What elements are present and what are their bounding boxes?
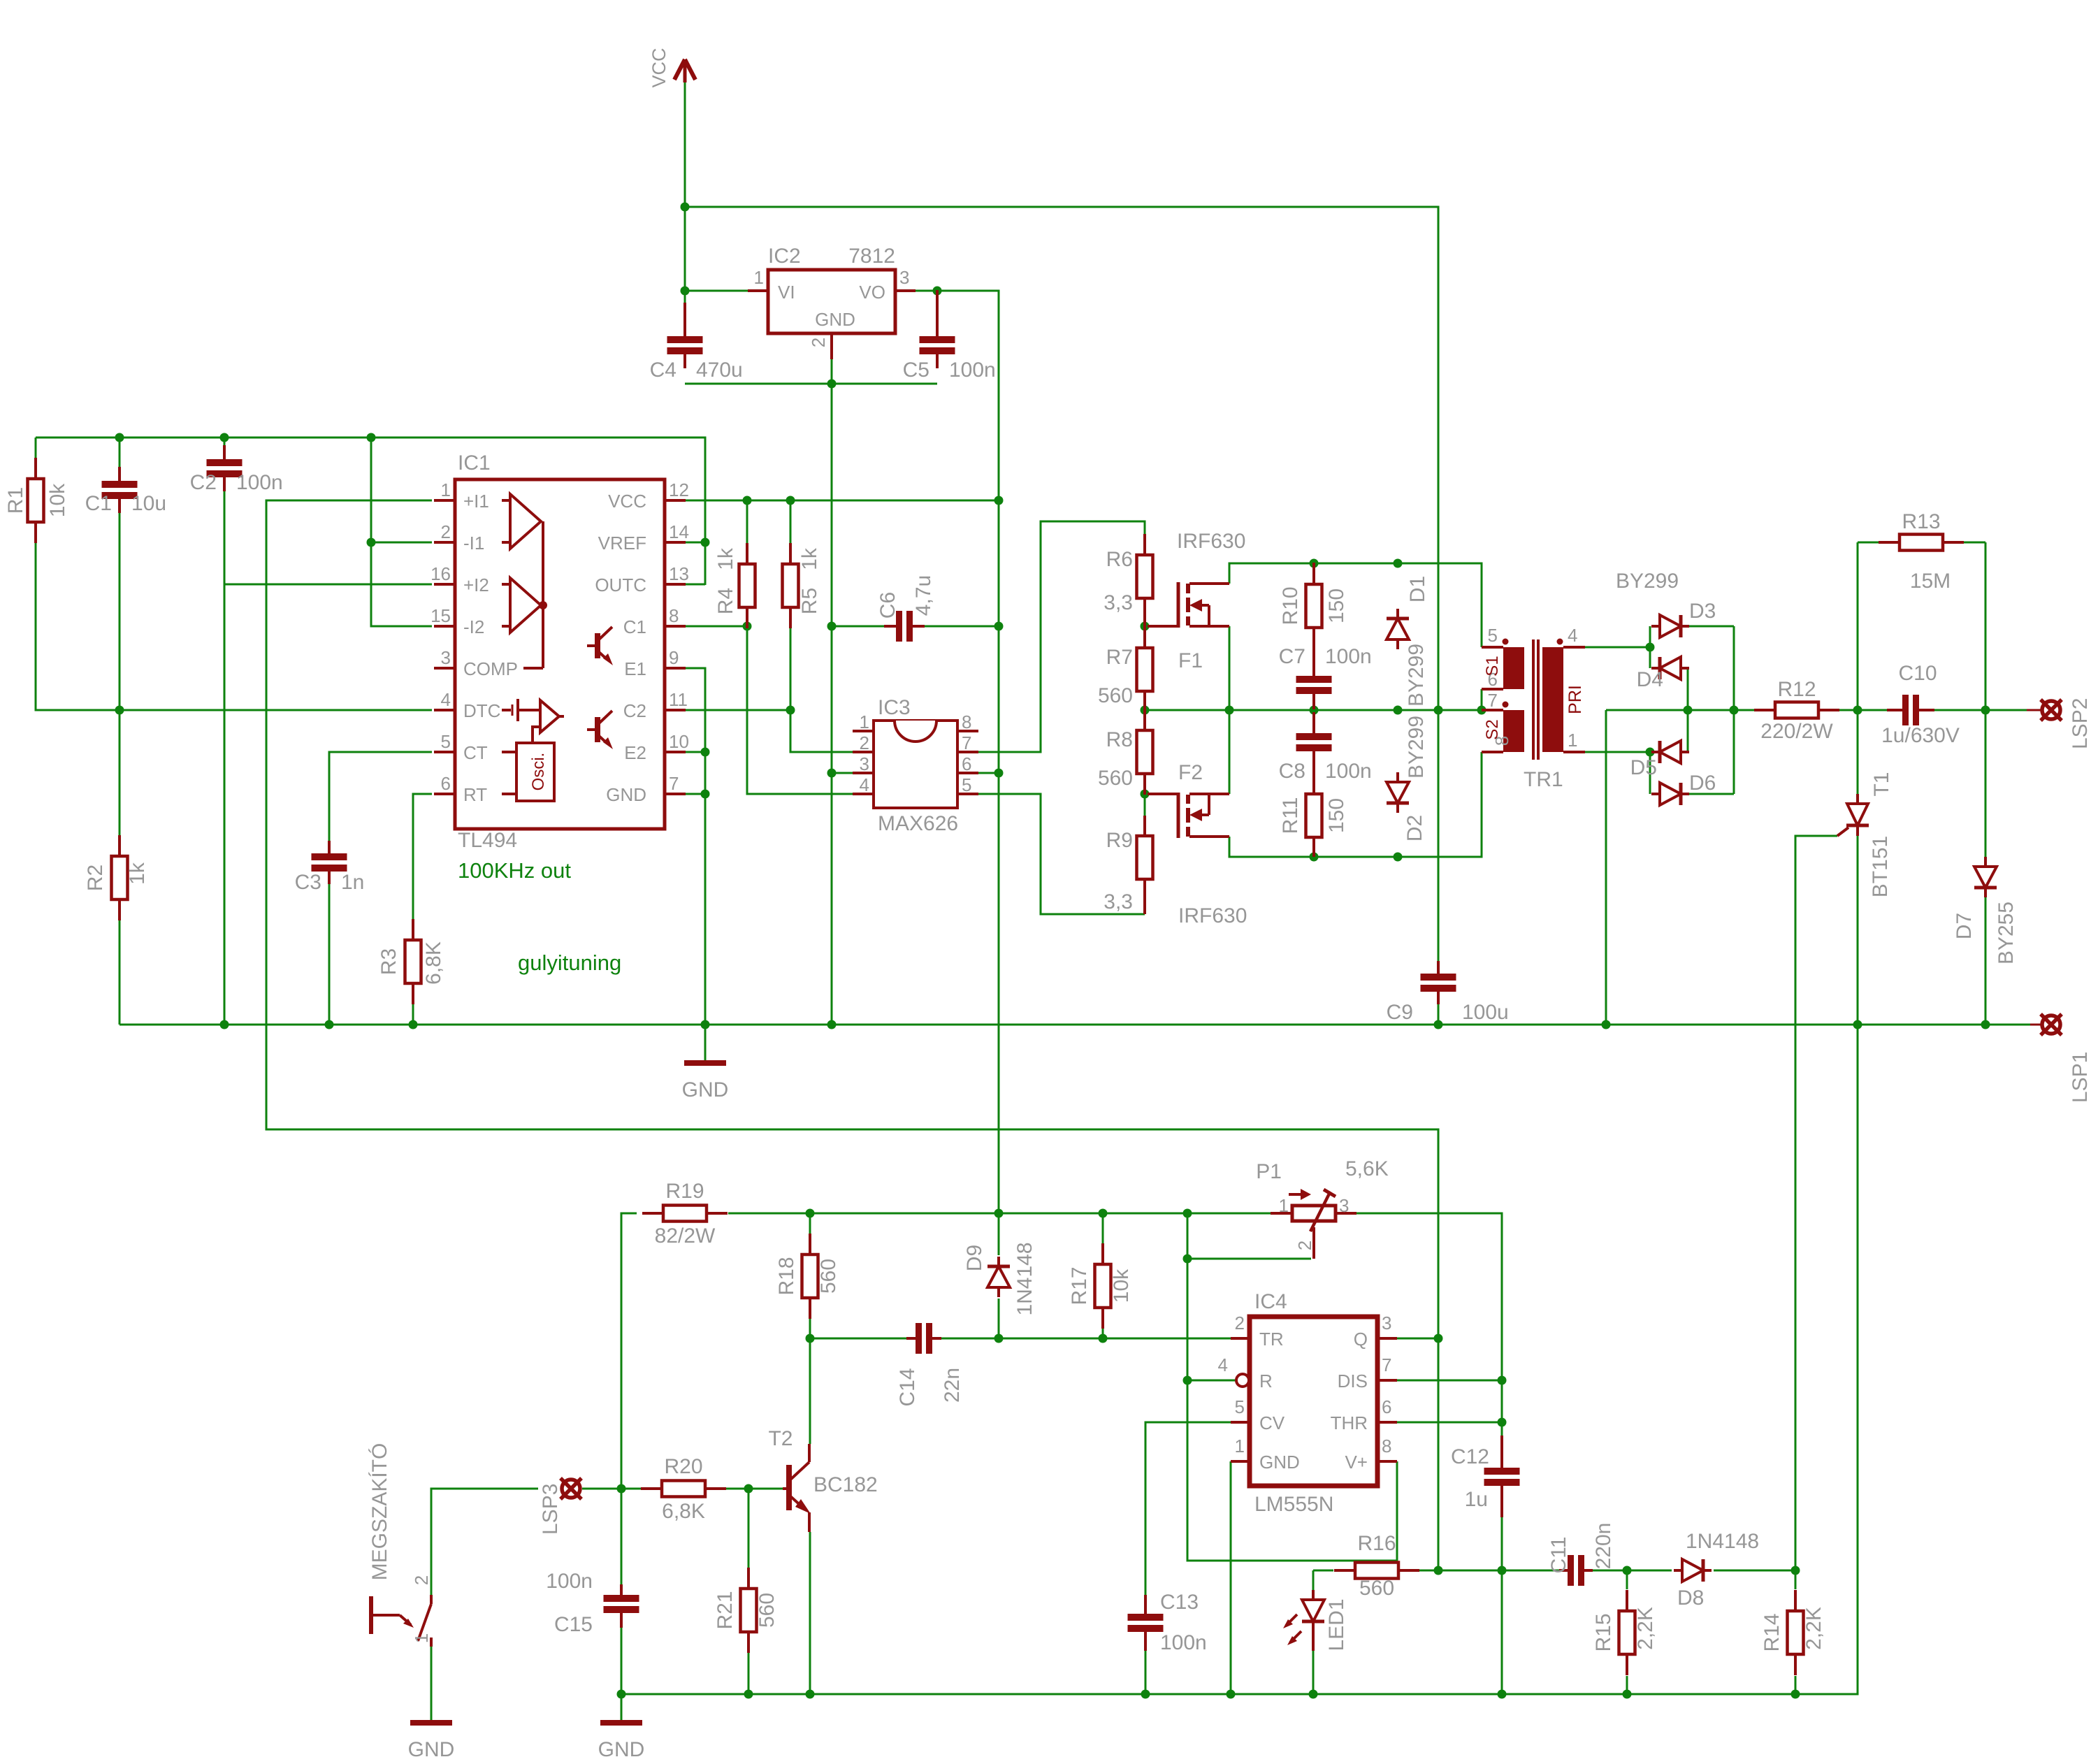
capacitor C5 100n: [920, 290, 955, 368]
svg-text:THR: THR: [1331, 1412, 1368, 1433]
svg-text:R14: R14: [1760, 1613, 1783, 1651]
svg-text:R9: R9: [1106, 829, 1133, 852]
capacitor C2 100n: [207, 445, 243, 491]
svg-text:GND: GND: [1259, 1452, 1300, 1473]
svg-text:D4: D4: [1637, 668, 1663, 691]
svg-text:MEGSZAKÍTÓ: MEGSZAKÍTÓ: [368, 1443, 391, 1581]
svg-text:D5: D5: [1630, 756, 1657, 779]
svg-text:1k: 1k: [798, 547, 821, 570]
wire D8 to T1 gate node: [1714, 1570, 1795, 1572]
wire C2 to +I2 and ground rail: [224, 482, 226, 1025]
svg-text:7: 7: [1488, 690, 1498, 711]
wire D7 bottom: [1985, 897, 1987, 1025]
svg-text:1: 1: [441, 479, 451, 500]
capacitor C13 100n: [1128, 1595, 1164, 1651]
svg-text:1N4148: 1N4148: [1686, 1530, 1759, 1553]
junction dots gate nodes: [1141, 622, 1150, 799]
svg-text:3: 3: [899, 267, 909, 288]
capacitor C1 10u: [102, 467, 138, 513]
svg-text:560: 560: [1098, 767, 1133, 790]
svg-text:470u: 470u: [696, 359, 743, 382]
junction dot R5 pin11: [786, 706, 795, 715]
junction dots IC2 area: [827, 287, 942, 389]
resistor R6 3,3: [1137, 534, 1153, 626]
svg-text:8: 8: [1382, 1436, 1391, 1456]
wire -I1 into pin2: [371, 542, 432, 544]
svg-text:TL494: TL494: [458, 829, 517, 852]
diode D9 1N4148: [987, 1257, 1010, 1297]
wire R13 right leg: [1985, 542, 1987, 710]
wire R pin4 stub: [1187, 1380, 1236, 1382]
wire CT to C3: [329, 752, 432, 850]
wire bottom ground rail: [621, 1025, 1858, 1694]
svg-text:C11: C11: [1547, 1537, 1570, 1574]
resistor R8 560: [1137, 709, 1153, 795]
ground symbol under switch: [408, 1723, 455, 1761]
svg-text:3,3: 3,3: [1104, 890, 1133, 913]
svg-text:E2: E2: [624, 742, 646, 763]
svg-text:R1: R1: [4, 487, 27, 514]
svg-text:100n: 100n: [1160, 1631, 1207, 1654]
resistor R9 3,3: [1137, 816, 1153, 914]
svg-text:4: 4: [1218, 1354, 1228, 1375]
svg-text:C4: C4: [650, 359, 676, 382]
svg-text:8: 8: [669, 605, 679, 626]
svg-text:C15: C15: [554, 1613, 593, 1636]
resistor R16 560: [1334, 1563, 1419, 1579]
wire R14 bottom lead: [1795, 1676, 1797, 1694]
svg-text:2: 2: [441, 521, 451, 542]
svg-text:100u: 100u: [1462, 1001, 1509, 1024]
wire R16 left leg: [1312, 1570, 1315, 1590]
wire R18 branch: [809, 1213, 811, 1234]
wire C10 to LSP2: [1926, 709, 2027, 711]
wire TR trigger line: [810, 1338, 915, 1340]
junction dot MAX pin3: [827, 769, 837, 778]
op-amp U IC3 MAX626 mosfet driver: [853, 696, 978, 835]
svg-text:4,7u: 4,7u: [912, 575, 935, 616]
svg-text:D8: D8: [1677, 1586, 1704, 1610]
wire MAX626 pin6 to 12V rail: [978, 772, 999, 774]
wire +I1 pin1 down to Q line: [266, 500, 1438, 1570]
svg-text:11: 11: [669, 689, 688, 710]
resistor R10 150: [1306, 563, 1322, 675]
junction dots source rail: [1310, 853, 1403, 862]
svg-text:R6: R6: [1106, 548, 1133, 571]
svg-text:1: 1: [754, 267, 764, 288]
svg-text:R10: R10: [1279, 586, 1302, 625]
svg-text:+I1: +I1: [463, 491, 489, 512]
wire switch to gnd: [430, 1647, 433, 1723]
wire IC4 GND to bottom rail: [1230, 1461, 1232, 1694]
svg-text:C1: C1: [623, 616, 646, 637]
svg-text:C6: C6: [876, 592, 899, 619]
capacitor C9 100u: [1421, 961, 1456, 1004]
svg-text:VO: VO: [859, 282, 885, 303]
junction dots D8 line: [1434, 1566, 1800, 1575]
wire C15 to gnd: [621, 1619, 623, 1723]
svg-text:-I2: -I2: [463, 616, 484, 637]
wire top supply rail: [36, 438, 705, 585]
svg-text:22n: 22n: [941, 1368, 964, 1403]
svg-text:220n: 220n: [1592, 1523, 1615, 1570]
wire IC4 THR line: [1397, 1422, 1502, 1424]
voltage regulator IC2 7812: [748, 245, 916, 359]
wire R3 to ground rail: [412, 1004, 414, 1025]
wire VREF spur: [686, 542, 705, 544]
wire R1 branch: [35, 438, 37, 458]
wire C12 bottom to bottom rail: [1501, 1508, 1503, 1694]
svg-text:S1: S1: [1483, 656, 1502, 676]
resistor R12 220/2W: [1754, 702, 1839, 718]
svg-text:1k: 1k: [714, 547, 737, 570]
wire -I1 -I2 link: [371, 438, 432, 626]
svg-text:C5: C5: [903, 359, 929, 382]
wire F2 gate to R9 top: [1144, 794, 1146, 816]
svg-text:100n: 100n: [236, 471, 283, 494]
wire C2 branch: [224, 438, 226, 454]
diode D3: [1651, 615, 1689, 637]
svg-text:14: 14: [669, 521, 689, 542]
svg-text:150: 150: [1325, 798, 1348, 833]
resistor R17 10k: [1095, 1243, 1111, 1329]
svg-text:R11: R11: [1279, 797, 1302, 834]
diode D4: [1651, 657, 1689, 679]
wire D7 top: [1985, 710, 1987, 858]
svg-text:gulyituning: gulyituning: [518, 950, 621, 975]
transistor T2 BC182: [768, 1427, 877, 1532]
wire R17 bottom: [1102, 1329, 1104, 1338]
capacitor C15 100n: [604, 1584, 639, 1628]
svg-text:1: 1: [860, 711, 869, 732]
svg-text:3: 3: [1339, 1195, 1349, 1216]
diode D2 BY299: [1387, 772, 1409, 813]
solder pad LSP1: [2041, 1014, 2091, 1103]
wire D6 cathode link: [1689, 793, 1734, 795]
svg-text:2,2K: 2,2K: [1802, 1607, 1825, 1650]
wire IC2 GND down to ground rail: [831, 359, 833, 1025]
svg-text:DTC: DTC: [463, 700, 500, 721]
wire D5 D6 anode link: [1649, 752, 1651, 794]
svg-text:IC4: IC4: [1254, 1290, 1287, 1313]
wire R15 top lead: [1626, 1570, 1628, 1589]
svg-text:1n: 1n: [341, 871, 364, 894]
svg-text:S2: S2: [1483, 719, 1502, 739]
junction dots trigger line: [806, 1334, 1108, 1343]
svg-text:1N4148: 1N4148: [1013, 1242, 1036, 1315]
capacitor C6 4,7u: [884, 611, 925, 642]
junction dots E lines: [701, 748, 710, 799]
switch S1 MEGSZAKITO: [368, 1443, 432, 1647]
svg-text:R21: R21: [714, 1591, 737, 1629]
wire F1 drain rail to TR pin5: [1229, 563, 1482, 647]
svg-text:1: 1: [411, 1633, 432, 1643]
resistor R14 2,2K: [1788, 1590, 1804, 1675]
svg-text:5: 5: [1488, 625, 1498, 646]
wire F2 source rail to TR pin8: [1229, 752, 1482, 857]
svg-text:D1: D1: [1406, 576, 1429, 602]
wire E1 E2 GND7 to ground: [686, 668, 705, 1062]
wire R4 branch: [746, 500, 748, 544]
svg-text:D7: D7: [1953, 913, 1976, 939]
svg-text:R7: R7: [1106, 646, 1133, 669]
wire pin11 to R5: [686, 709, 790, 711]
svg-text:6,8K: 6,8K: [662, 1500, 705, 1523]
transistor F1 IRF630: [1148, 530, 1245, 672]
junction dots 12V rail: [743, 496, 1004, 505]
junction dots reset line: [1183, 1255, 1192, 1385]
svg-text:R4: R4: [714, 588, 737, 614]
wire C14 to IC4 TR: [933, 1338, 1231, 1340]
svg-text:C9: C9: [1387, 1001, 1413, 1024]
solder pad LSP2: [2041, 698, 2091, 749]
svg-text:R12: R12: [1777, 678, 1816, 701]
svg-text:D6: D6: [1689, 772, 1716, 795]
svg-text:3: 3: [441, 647, 451, 668]
svg-text:C7: C7: [1279, 645, 1305, 668]
svg-text:4: 4: [1568, 625, 1577, 646]
svg-text:Q: Q: [1354, 1329, 1368, 1350]
svg-text:MAX626: MAX626: [878, 812, 958, 835]
resistor R15 2,2K: [1619, 1590, 1635, 1675]
svg-text:1: 1: [1279, 1195, 1289, 1216]
wire IC2 VO to C5 and down: [916, 291, 999, 1213]
wire LSP1 ground rail: [120, 1024, 2030, 1026]
wire R13 left leg: [1857, 542, 1859, 710]
capacitor C3 1n: [312, 841, 347, 884]
resistor R5 1k: [783, 543, 799, 628]
svg-text:7: 7: [1382, 1354, 1391, 1375]
svg-text:C2: C2: [190, 471, 217, 494]
wire R18 to T2 collector: [809, 1319, 811, 1444]
svg-text:D3: D3: [1689, 600, 1716, 623]
svg-text:2: 2: [860, 732, 869, 753]
wire gnd spur to MAX626 pin3: [832, 772, 853, 774]
svg-text:5: 5: [441, 731, 451, 752]
svg-text:C2: C2: [623, 700, 646, 721]
svg-text:3: 3: [1382, 1313, 1391, 1333]
ground symbol under IC1: [682, 1063, 729, 1101]
junction dots center rail: [1141, 706, 1486, 715]
wire output rail to R12: [1606, 709, 1755, 711]
wire C15 column: [621, 1489, 623, 1593]
wire P1 wiper to R pin: [1187, 1258, 1311, 1260]
svg-text:PRI: PRI: [1565, 685, 1585, 714]
svg-text:LM555N: LM555N: [1254, 1493, 1333, 1516]
svg-text:BY299: BY299: [1405, 644, 1428, 707]
svg-text:GND: GND: [408, 1738, 455, 1761]
wire VCC stem: [684, 82, 686, 312]
wire R17 branch: [1102, 1213, 1104, 1243]
svg-text:BC182: BC182: [813, 1473, 878, 1496]
svg-text:15: 15: [430, 605, 451, 626]
svg-text:BY299: BY299: [1405, 716, 1428, 779]
transistor F2 IRF630: [1148, 761, 1247, 927]
wire C3 to ground rail: [328, 876, 331, 1025]
wire C1 to R2 node: [119, 504, 121, 835]
wire R16 to D8 node: [1419, 1570, 1568, 1572]
wire T1 cathode to LSP1 rail: [1857, 836, 1859, 1025]
resistor R20 6,8K: [641, 1481, 726, 1497]
wire R15 bottom lead: [1626, 1676, 1628, 1694]
svg-text:T2: T2: [768, 1427, 793, 1450]
wire R5 to pin11 and MAX626 pin2: [790, 628, 853, 752]
svg-text:9: 9: [669, 647, 679, 668]
svg-text:10k: 10k: [46, 483, 69, 517]
svg-text:IC3: IC3: [878, 696, 911, 719]
resistor R11 150: [1306, 772, 1322, 857]
wire VCC to IC2 VI: [685, 290, 748, 292]
svg-text:V+: V+: [1345, 1452, 1368, 1473]
svg-text:VCC: VCC: [649, 48, 670, 87]
svg-text:TR1: TR1: [1524, 768, 1563, 791]
diode D8 1N4148: [1674, 1559, 1712, 1582]
svg-text:D2: D2: [1403, 815, 1426, 841]
svg-text:10k: 10k: [1110, 1268, 1133, 1303]
svg-text:E1: E1: [624, 658, 646, 679]
wire R14 top lead: [1795, 1570, 1797, 1589]
svg-text:C14: C14: [896, 1368, 919, 1406]
svg-text:10u: 10u: [131, 492, 166, 515]
wire reset column: [1187, 1213, 1397, 1561]
wire D3 D6 cathode link: [1733, 626, 1735, 794]
svg-text:150: 150: [1325, 588, 1348, 623]
wire C13 to bottom rail: [1145, 1642, 1147, 1694]
svg-text:R18: R18: [775, 1257, 798, 1295]
wire R16 left corner: [1313, 1570, 1333, 1572]
svg-text:3: 3: [860, 753, 869, 774]
svg-text:C13: C13: [1160, 1591, 1199, 1614]
wire LSP1 stub: [2030, 1024, 2043, 1026]
svg-text:GND: GND: [598, 1738, 645, 1761]
wire D4 D5 cathode link: [1687, 668, 1689, 752]
transformer TR1: [1482, 625, 1585, 791]
svg-text:8: 8: [962, 711, 971, 732]
svg-text:4: 4: [860, 774, 869, 795]
svg-text:6: 6: [962, 753, 971, 774]
svg-text:16: 16: [430, 563, 451, 584]
capacitor C14 22n: [906, 1323, 941, 1354]
svg-text:RT: RT: [463, 784, 487, 805]
ground symbol under C15: [598, 1723, 645, 1761]
wire R1 to DTC: [36, 542, 432, 710]
junction dots rectifier: [1646, 643, 1739, 757]
svg-text:2,2K: 2,2K: [1634, 1607, 1657, 1650]
svg-text:6,8K: 6,8K: [422, 941, 445, 985]
resistor R19 82/2W: [642, 1206, 728, 1222]
svg-text:1u/630V: 1u/630V: [1881, 724, 1960, 747]
junction dots ground rail: [220, 1020, 1990, 1029]
svg-text:LED1: LED1: [1325, 1598, 1348, 1651]
wire C4 C5 ground link: [685, 383, 937, 385]
svg-text:IRF630: IRF630: [1177, 530, 1245, 553]
svg-text:10: 10: [669, 731, 689, 752]
svg-text:R20: R20: [664, 1455, 702, 1478]
svg-text:2: 2: [1294, 1241, 1315, 1250]
wire D9 bottom lead: [998, 1299, 1000, 1338]
wire VCC pin12 rail: [686, 500, 999, 502]
svg-text:100n: 100n: [949, 359, 996, 382]
capacitor C11 220n: [1559, 1555, 1593, 1586]
svg-text:220/2W: 220/2W: [1760, 720, 1833, 743]
svg-text:+I2: +I2: [463, 574, 489, 595]
svg-text:13: 13: [669, 563, 689, 584]
resistor R2 1k: [112, 835, 128, 920]
wire T2 emitter to bottom rail: [809, 1532, 811, 1694]
junction dot MAX pin6: [994, 769, 1004, 778]
svg-text:C3: C3: [295, 871, 321, 894]
wire P1 pin3 to THR column: [1356, 1213, 1502, 1445]
wire E2 into pin10: [686, 751, 705, 753]
svg-text:4: 4: [441, 689, 451, 710]
diode D7 BY255: [1974, 857, 1997, 897]
potentiometer P1 5,6K: [1256, 1157, 1388, 1259]
wire R21 branch: [748, 1489, 750, 1588]
wire LSP3 to switch: [431, 1489, 538, 1595]
svg-text:100n: 100n: [1325, 645, 1372, 668]
svg-text:5: 5: [1235, 1396, 1245, 1417]
wire C9 to LSP1 rail: [1438, 995, 1440, 1025]
resistor R4 1k: [739, 543, 755, 628]
junction dots IC1 left: [115, 538, 710, 715]
wire C11 to R15 node: [1584, 1570, 1672, 1572]
svg-text:R8: R8: [1106, 728, 1133, 751]
wire TR pin1 to rectifier: [1585, 751, 1650, 753]
svg-text:Osci.: Osci.: [529, 753, 548, 791]
resistor R18 560: [802, 1234, 818, 1319]
svg-text:TR: TR: [1259, 1329, 1284, 1350]
svg-text:R16: R16: [1357, 1532, 1396, 1555]
wire R2 to ground rail: [119, 920, 121, 1025]
wire D9 top lead: [998, 1213, 1000, 1255]
svg-text:560: 560: [1359, 1577, 1394, 1600]
svg-text:P1: P1: [1256, 1160, 1282, 1183]
wire C6 to 12V rail: [916, 626, 999, 628]
svg-text:C10: C10: [1898, 662, 1937, 685]
wire R13 right lead: [1964, 542, 1985, 544]
op-amp U IC1 TL494 PWM controller: [430, 451, 689, 852]
junction dots C6 line: [743, 622, 1004, 631]
wire output drop to LSP1 rail: [1605, 710, 1607, 1025]
junction dots base node: [617, 1484, 753, 1494]
wire VCC top rail to transformer center: [685, 207, 1438, 710]
svg-text:LSP2: LSP2: [2069, 698, 2091, 749]
svg-text:GND: GND: [815, 309, 855, 330]
svg-text:LSP1: LSP1: [2069, 1052, 2091, 1103]
svg-text:R2: R2: [84, 865, 107, 891]
svg-text:R19: R19: [665, 1180, 704, 1203]
wire pin8 to R4: [686, 626, 747, 628]
wire IC4 CV to C13: [1145, 1422, 1231, 1604]
svg-text:5,6K: 5,6K: [1345, 1157, 1389, 1180]
wire MAX626 pin5 to R9: [978, 794, 1145, 914]
junction dots VCC column: [681, 203, 690, 296]
svg-text:LSP3: LSP3: [539, 1484, 562, 1535]
diode D5: [1651, 741, 1689, 763]
wire R4 node to MAX626 pin4: [747, 628, 853, 794]
diode D1 BY299: [1387, 609, 1409, 649]
svg-text:560: 560: [1098, 684, 1133, 707]
junction dots bottom rail: [617, 1690, 1800, 1699]
junction dots top rail: [115, 433, 376, 442]
junction dots Q DIS THR: [1434, 1334, 1507, 1427]
svg-text:82/2W: 82/2W: [655, 1224, 716, 1248]
wire IC4 Q to +I1 line: [1397, 1338, 1438, 1340]
svg-text:F2: F2: [1178, 761, 1203, 784]
junction dots R19 rail: [806, 1209, 1192, 1218]
svg-text:CV: CV: [1259, 1412, 1285, 1433]
wire R19 supply rail: [621, 1213, 637, 1489]
